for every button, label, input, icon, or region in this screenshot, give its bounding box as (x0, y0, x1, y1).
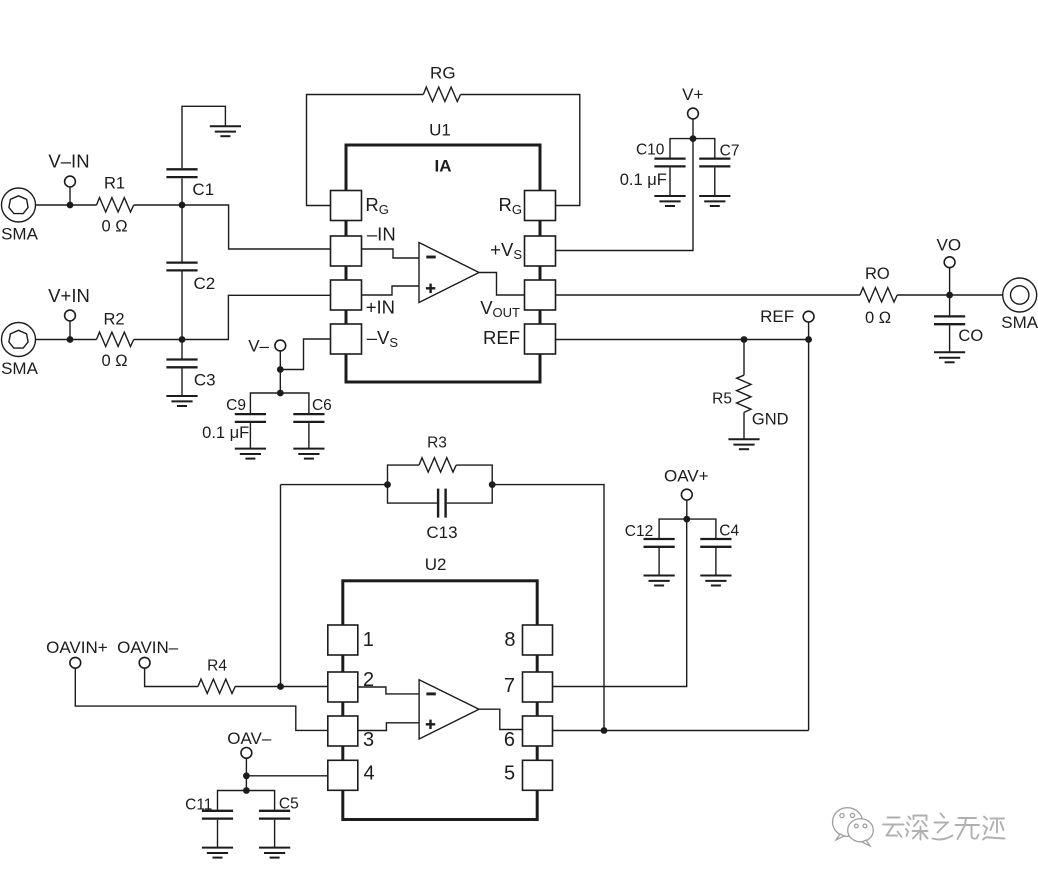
svg-text:SMA: SMA (1001, 313, 1038, 332)
svg-text:0 Ω: 0 Ω (101, 218, 127, 236)
pin U1 -VS (left) (331, 324, 362, 354)
ground (C6) (293, 449, 324, 459)
ground (C3) (166, 396, 197, 406)
pin U1 -IN (left) (331, 236, 362, 266)
svg-text:–IN: –IN (367, 224, 396, 245)
svg-text:0.1 μF: 0.1 μF (620, 171, 667, 189)
pin U2 3 (328, 716, 358, 746)
svg-text:SMA: SMA (1, 359, 39, 378)
svg-text:REF: REF (483, 327, 520, 348)
pin U1 RG (left) (331, 191, 362, 221)
connector J1 SMA V-IN (2, 188, 36, 222)
ground (C1) (210, 126, 241, 136)
watermark text zhi (933, 814, 953, 840)
capacitor C7 (699, 159, 730, 196)
node V+ terminal (688, 108, 699, 136)
junction R1/C1/C2 (179, 202, 186, 209)
wire junction to U1 -IN (182, 205, 331, 249)
plus input mark U1 (426, 284, 435, 293)
junction V- upper (277, 366, 284, 373)
svg-text:SMA: SMA (1, 225, 39, 244)
watermark text yun (883, 818, 904, 838)
svg-text:V+: V+ (682, 85, 703, 104)
svg-text:REF: REF (760, 307, 794, 326)
svg-text:C5: C5 (279, 796, 299, 813)
ground (CO) (934, 352, 965, 362)
ground (C4) (700, 576, 731, 586)
ground (C5) (259, 848, 290, 858)
junction R2/C2/C3 (179, 336, 186, 343)
svg-text:OAVIN–: OAVIN– (117, 638, 179, 657)
svg-text:1: 1 (363, 629, 374, 651)
wire pin7 to OAV+ (553, 519, 687, 686)
svg-text:C1: C1 (192, 180, 214, 199)
connector J3 SMA VO (1003, 278, 1037, 312)
node OAV- terminal (241, 748, 252, 776)
capacitor C9 (235, 414, 266, 448)
svg-text:C6: C6 (312, 397, 332, 414)
pin U2 2 (328, 672, 358, 702)
ground (C7) (699, 196, 730, 206)
ground (C9) (235, 449, 266, 459)
svg-text:C7: C7 (720, 142, 740, 159)
pin U2 4 (328, 760, 358, 790)
wire REF down to U2 pin6 (808, 340, 810, 731)
resistor R2 (70, 332, 182, 346)
pin U2 7 (523, 672, 553, 702)
svg-text:C3: C3 (194, 371, 216, 390)
junction OAV- lower (243, 787, 250, 794)
wire V- down (279, 370, 281, 394)
ground (C11) (202, 848, 233, 858)
svg-text:C4: C4 (719, 522, 739, 539)
watermark text wu (956, 818, 980, 839)
wire OAV- rail to caps (218, 791, 275, 811)
op-amp U2 body (343, 581, 537, 820)
wire pin2 to triangle (358, 687, 419, 694)
connector J2 SMA V+IN (2, 323, 36, 357)
wire feedback rail right (492, 485, 604, 731)
svg-text:0.1 μF: 0.1 μF (202, 424, 249, 442)
svg-text:C12: C12 (625, 523, 653, 540)
capacitor CO (934, 295, 965, 352)
node R3/C13 right (489, 481, 496, 488)
wire OAV- down (245, 776, 247, 791)
watermark text ji (983, 817, 1005, 840)
svg-text:3: 3 (363, 729, 374, 751)
svg-text:R5: R5 (712, 391, 732, 408)
junction V-IN (67, 202, 74, 209)
svg-text:RG: RG (430, 64, 456, 83)
svg-text:C9: C9 (226, 397, 246, 414)
wire V- rail to caps (250, 393, 309, 414)
node V+IN terminal (65, 310, 76, 339)
wire V- to -VS pin (280, 339, 330, 370)
node OAVIN+ terminal (70, 657, 81, 668)
capacitor C13 (388, 485, 493, 518)
watermark icon (833, 808, 874, 846)
node REF terminal (803, 311, 814, 339)
resistor RG (gain) (307, 87, 580, 205)
pin U2 6 (523, 716, 553, 746)
svg-text:8: 8 (504, 629, 515, 651)
wire J1 to node V-IN (36, 204, 71, 206)
svg-text:R4: R4 (207, 657, 227, 674)
svg-text:5: 5 (504, 762, 515, 784)
svg-text:U1: U1 (429, 121, 451, 140)
pin U2 1 (328, 625, 358, 655)
wire triangle out to VOUT pin (479, 273, 525, 296)
node OAV+ terminal (681, 489, 692, 517)
svg-text:OAVIN+: OAVIN+ (46, 638, 108, 657)
junction V+ (690, 135, 697, 142)
svg-text:4: 4 (364, 762, 375, 784)
ground (C12) (644, 576, 675, 586)
svg-text:R3: R3 (427, 434, 447, 451)
svg-text:CO: CO (958, 327, 983, 345)
pin U1 REF (right) (525, 324, 556, 354)
capacitor C1 (166, 106, 225, 205)
svg-text:C11: C11 (185, 797, 212, 814)
wire +IN pin to triangle (362, 286, 420, 295)
resistor R4 (145, 668, 328, 693)
capacitor C5 (259, 811, 290, 848)
capacitor C2 (166, 205, 197, 340)
junction REF (805, 336, 812, 343)
resistor R5 (737, 340, 751, 439)
junction R4/feedback (277, 683, 284, 690)
svg-text:7: 7 (504, 675, 515, 697)
svg-text:C13: C13 (426, 523, 457, 542)
wire V+ to +VS pin (556, 139, 694, 251)
node VO terminal (944, 257, 955, 295)
svg-text:V–: V– (248, 337, 269, 356)
resistor RO (860, 288, 1003, 302)
op-amp triangle U2 (419, 680, 479, 739)
node R3/C13 left (384, 481, 391, 488)
capacitor C6 (293, 414, 324, 448)
wire pin3 to triangle (358, 723, 419, 731)
junction feedback/pin6 (601, 727, 608, 734)
wire REF pin to REF node (556, 339, 809, 341)
svg-text:R1: R1 (104, 175, 125, 193)
resistor R3 (388, 458, 493, 485)
minus input mark U1 (426, 256, 435, 259)
op-amp U1 body (346, 145, 540, 382)
wire feedback rail left (281, 484, 388, 486)
junction VO (946, 292, 953, 299)
pin U1 +VS (right) (525, 236, 556, 266)
wire feedback left down to pin2 (280, 485, 282, 687)
junction OAV- upper (243, 772, 250, 779)
svg-text:V+IN: V+IN (48, 285, 90, 306)
plus input mark U2 (426, 720, 435, 729)
wire VOUT to RO (556, 294, 861, 296)
node OAVIN- terminal (139, 657, 150, 668)
wire V+ rail to caps (670, 139, 715, 159)
wire triangle out to pin6 (479, 709, 523, 729)
wire -IN pin to triangle (362, 249, 420, 258)
capacitor C4 (700, 539, 731, 575)
node V- terminal (275, 340, 286, 367)
ground (R5) (728, 439, 759, 449)
capacitor C11 (202, 811, 233, 848)
junction R5 top (741, 336, 748, 343)
wire OAV+ rail to caps (659, 519, 716, 539)
pin U1 RG (right) (525, 191, 556, 221)
op-amp triangle U1 (419, 243, 479, 303)
capacitor C12 (644, 539, 675, 575)
svg-text:C2: C2 (194, 274, 216, 293)
wire junction to U1 +IN (182, 295, 331, 339)
pin U1 +IN (left) (331, 280, 362, 310)
wire OAV- to pin4 (246, 775, 327, 777)
svg-text:0 Ω: 0 Ω (865, 309, 891, 327)
capacitor C3 (166, 340, 197, 396)
wire J2 to node V+IN (36, 339, 71, 341)
svg-text:V–IN: V–IN (48, 151, 89, 172)
junction OAV+ (683, 516, 690, 523)
svg-text:VO: VO (937, 236, 962, 255)
wire OAVIN+ to pin3 (75, 668, 327, 730)
pin U2 5 (523, 760, 553, 790)
resistor R1 (70, 198, 182, 212)
svg-text:OAV–: OAV– (227, 729, 272, 748)
junction V+IN (67, 336, 74, 343)
svg-text:RO: RO (865, 265, 890, 283)
ground (C10) (654, 196, 685, 206)
svg-text:R2: R2 (103, 311, 124, 329)
svg-text:6: 6 (504, 729, 515, 751)
svg-text:OAV+: OAV+ (664, 467, 709, 486)
svg-text:C10: C10 (636, 142, 665, 159)
pin U1 VOUT (right) (525, 280, 556, 310)
pin U2 8 (523, 625, 553, 655)
svg-text:+IN: +IN (366, 297, 395, 318)
junction V- lower (277, 390, 284, 397)
svg-text:GND: GND (752, 411, 789, 429)
node V-IN terminal (65, 176, 76, 205)
svg-text:IA: IA (435, 157, 452, 176)
watermark text shen (906, 816, 928, 840)
wire pin6 to REF line (553, 730, 809, 732)
svg-text:U2: U2 (425, 555, 447, 574)
svg-text:0 Ω: 0 Ω (101, 352, 127, 370)
minus input mark U2 (426, 692, 435, 695)
capacitor C10 (654, 159, 685, 196)
